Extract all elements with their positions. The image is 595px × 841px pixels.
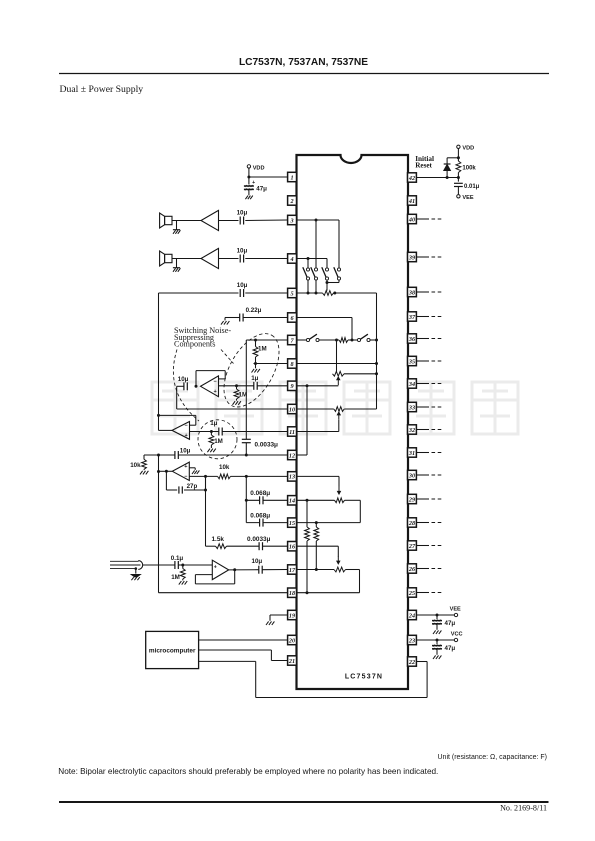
svg-text:15: 15 bbox=[289, 520, 295, 527]
svg-text:18: 18 bbox=[289, 590, 295, 597]
svg-text:VEE: VEE bbox=[450, 607, 461, 613]
svg-text:VCC: VCC bbox=[451, 632, 463, 638]
svg-text:0.068μ: 0.068μ bbox=[250, 512, 270, 519]
svg-text:1M: 1M bbox=[258, 346, 267, 353]
svg-text:13: 13 bbox=[289, 474, 295, 481]
svg-text:0.1μ: 0.1μ bbox=[171, 555, 184, 562]
svg-text:22: 22 bbox=[408, 659, 415, 666]
svg-text:37: 37 bbox=[408, 314, 416, 321]
svg-text:+: + bbox=[214, 564, 217, 570]
svg-text:+: + bbox=[214, 389, 217, 395]
svg-text:20: 20 bbox=[288, 637, 295, 644]
svg-text:47μ: 47μ bbox=[256, 185, 267, 192]
svg-text:39: 39 bbox=[408, 254, 415, 261]
svg-text:30: 30 bbox=[408, 472, 415, 479]
svg-text:No. 2169-8/11: No. 2169-8/11 bbox=[500, 804, 547, 813]
svg-text:40: 40 bbox=[408, 216, 415, 223]
svg-text:LC7537N: LC7537N bbox=[345, 674, 383, 681]
svg-text:−: − bbox=[185, 423, 188, 429]
svg-text:+: + bbox=[184, 464, 187, 470]
svg-text:38: 38 bbox=[408, 289, 415, 296]
svg-text:3: 3 bbox=[289, 217, 293, 224]
svg-text:5: 5 bbox=[290, 290, 293, 297]
svg-text:19: 19 bbox=[289, 612, 295, 619]
svg-text:24: 24 bbox=[408, 612, 415, 619]
svg-text:0.22μ: 0.22μ bbox=[246, 307, 262, 314]
svg-text:10μ: 10μ bbox=[237, 209, 248, 216]
svg-text:0.0033μ: 0.0033μ bbox=[255, 441, 279, 448]
svg-text:27p: 27p bbox=[187, 483, 198, 490]
svg-text:10μ: 10μ bbox=[252, 558, 263, 565]
svg-text:28: 28 bbox=[408, 520, 415, 527]
svg-text:Dual ± Power Supply: Dual ± Power Supply bbox=[60, 84, 144, 95]
svg-text:LC7537N, 7537AN, 7537NE: LC7537N, 7537AN, 7537NE bbox=[239, 57, 368, 68]
svg-text:34: 34 bbox=[408, 381, 415, 388]
svg-text:4: 4 bbox=[289, 256, 293, 263]
svg-text:31: 31 bbox=[408, 450, 415, 457]
svg-text:9: 9 bbox=[290, 383, 293, 390]
svg-text:25: 25 bbox=[408, 590, 415, 597]
svg-text:1: 1 bbox=[290, 174, 293, 181]
svg-text:35: 35 bbox=[408, 358, 415, 365]
svg-text:17: 17 bbox=[289, 567, 296, 574]
svg-text:1μ: 1μ bbox=[251, 375, 258, 382]
svg-text:26: 26 bbox=[408, 566, 416, 573]
svg-text:27: 27 bbox=[408, 543, 416, 550]
svg-text:47μ: 47μ bbox=[445, 620, 456, 627]
svg-text:0.0033μ: 0.0033μ bbox=[247, 536, 271, 543]
svg-text:16: 16 bbox=[289, 544, 296, 551]
svg-text:−: − bbox=[184, 474, 187, 480]
svg-text:2: 2 bbox=[289, 198, 293, 205]
svg-text:VEE: VEE bbox=[462, 195, 473, 201]
svg-text:+: + bbox=[185, 433, 188, 439]
svg-text:29: 29 bbox=[408, 496, 415, 503]
svg-text:47μ: 47μ bbox=[445, 645, 456, 652]
svg-text:Unit (resistance: Ω, capacitan: Unit (resistance: Ω, capacitance: F) bbox=[438, 754, 548, 761]
svg-text:1M: 1M bbox=[239, 392, 248, 399]
svg-text:10μ: 10μ bbox=[178, 376, 189, 383]
svg-text:36: 36 bbox=[408, 336, 416, 343]
svg-text:10μ: 10μ bbox=[180, 447, 191, 454]
svg-text:Note: Bipolar electrolytic cap: Note: Bipolar electrolytic capacitors sh… bbox=[58, 767, 438, 776]
svg-text:21: 21 bbox=[288, 658, 295, 665]
svg-text:−: − bbox=[214, 379, 217, 385]
svg-text:10μ: 10μ bbox=[237, 282, 248, 289]
svg-text:Components: Components bbox=[174, 340, 215, 349]
svg-text:41: 41 bbox=[408, 198, 415, 205]
svg-text:33: 33 bbox=[408, 404, 415, 411]
svg-text:10: 10 bbox=[289, 406, 295, 413]
svg-text:microcomputer: microcomputer bbox=[149, 648, 196, 655]
svg-text:Reset: Reset bbox=[415, 161, 432, 169]
svg-text:10μ: 10μ bbox=[237, 247, 248, 254]
svg-text:0.068μ: 0.068μ bbox=[250, 490, 270, 497]
svg-text:+: + bbox=[252, 180, 255, 186]
svg-text:14: 14 bbox=[289, 498, 295, 505]
svg-text:VDD: VDD bbox=[253, 165, 265, 171]
svg-text:10k: 10k bbox=[130, 462, 141, 469]
svg-text:1M: 1M bbox=[171, 574, 180, 581]
svg-text:1M: 1M bbox=[214, 438, 223, 445]
svg-text:VDD: VDD bbox=[462, 146, 474, 152]
svg-text:10k: 10k bbox=[219, 464, 230, 471]
svg-text:23: 23 bbox=[408, 637, 415, 644]
svg-text:32: 32 bbox=[408, 427, 415, 434]
svg-text:8: 8 bbox=[290, 361, 293, 368]
svg-text:11: 11 bbox=[289, 429, 295, 436]
svg-text:0.01μ: 0.01μ bbox=[464, 184, 480, 190]
svg-text:1.5k: 1.5k bbox=[212, 536, 225, 543]
svg-text:100k: 100k bbox=[462, 165, 476, 171]
svg-text:12: 12 bbox=[289, 452, 295, 459]
svg-text:42: 42 bbox=[408, 175, 415, 182]
